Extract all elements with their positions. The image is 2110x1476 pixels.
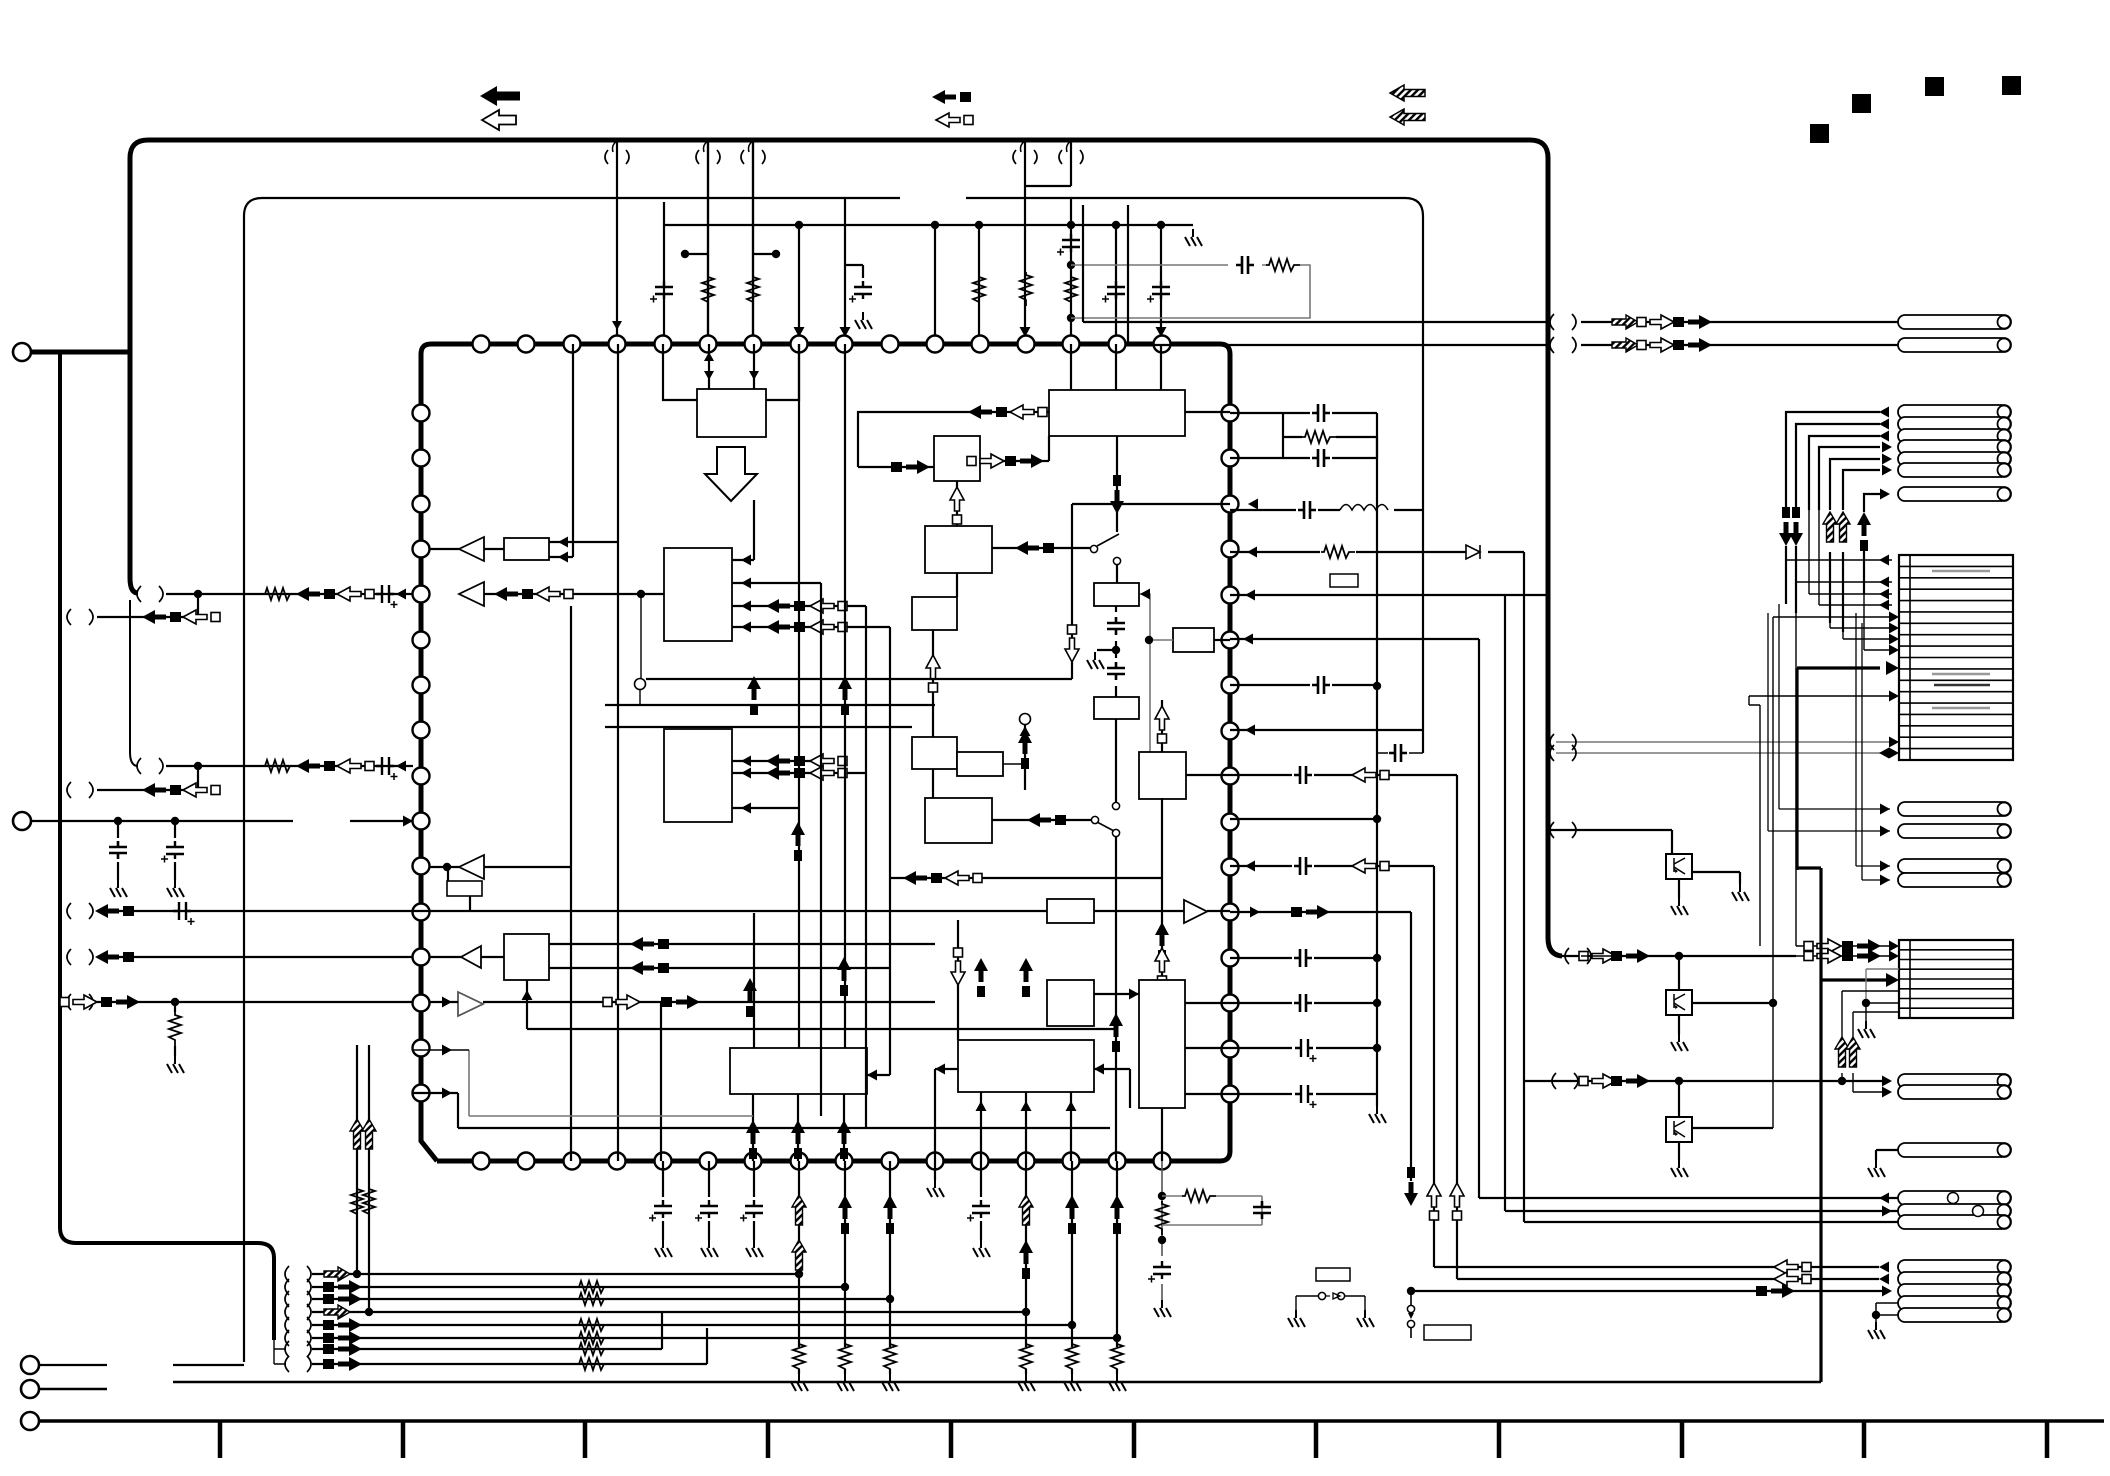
up arrow x754 mid <box>747 676 761 715</box>
wire to pill494 <box>1864 494 1880 512</box>
row1001 blockB <box>1866 1003 1899 1021</box>
thin frame leg to row766 <box>130 600 138 766</box>
wire blockA row628 <box>1830 627 1892 629</box>
label rect v1411 <box>1424 1325 1471 1340</box>
pill conn single494 <box>1898 487 2011 501</box>
corner marker square 1 <box>1810 124 1829 143</box>
arrowhead pin799 <box>794 327 805 337</box>
fan row 1338 <box>312 1337 1117 1339</box>
block sub11 <box>912 737 957 769</box>
IC left pin y866 <box>413 858 430 875</box>
row322 <box>1083 205 1898 322</box>
row821 <box>31 820 413 822</box>
row946 into blockB <box>1796 546 1892 946</box>
arrowhead blockA row594 <box>1879 589 1889 600</box>
wire top vertical x617 <box>616 140 618 344</box>
arrowhead pin766 <box>396 761 406 772</box>
wires into sub3 <box>1071 344 1230 412</box>
pill conn stack6 <box>1898 463 2011 477</box>
wire blockA row582 <box>1796 581 1892 583</box>
wire sub5 bottom <box>956 573 958 597</box>
res v1162 <box>1156 1201 1168 1235</box>
resistor R-loop <box>1266 259 1300 271</box>
row991 blockB <box>1842 991 1899 1037</box>
arrows on v1434 v1457 <box>1427 1183 1441 1220</box>
IC top pin x980 <box>972 336 989 353</box>
arrowheads sub1 <box>704 352 759 380</box>
wire blockA row605 <box>1819 604 1892 606</box>
ecap row1094 <box>1295 1085 1317 1108</box>
diode row552 <box>1466 545 1480 559</box>
wire x1161 <box>1160 225 1162 344</box>
wire blockA row594 <box>1809 593 1892 595</box>
arrow row766 b <box>337 759 374 773</box>
wire dotA <box>685 253 708 255</box>
fan arrow 1274 <box>324 1267 350 1281</box>
row594 left <box>166 593 413 595</box>
wire terminal to frame <box>31 350 130 355</box>
wire harness to pill3 <box>1809 436 1880 510</box>
interior vert x866 <box>865 606 867 1128</box>
arrows row968 <box>630 961 669 975</box>
resistor R-L2 <box>262 760 296 772</box>
fan vertical link <box>274 1340 286 1364</box>
IC left pin y640 <box>413 632 430 649</box>
ground x1377 <box>1369 1106 1386 1123</box>
IC bottom pin x663 <box>655 1153 672 1170</box>
IC top pin x708 <box>700 336 717 353</box>
arrowhead pill2 <box>1879 419 1889 430</box>
ecap row766 <box>376 757 398 780</box>
arrowhead blockA row617 <box>1889 612 1899 623</box>
arrowhead blockA row560 <box>1879 555 1889 566</box>
IC top pin x663 <box>655 336 672 353</box>
node 198-594 <box>194 590 202 598</box>
arrow row617 b <box>183 610 220 624</box>
blockA lower verticals <box>1749 436 1864 1128</box>
crossing row742 <box>1550 734 1576 750</box>
IC bottom pin x1117 <box>1109 1153 1126 1170</box>
wire blockA row560 <box>1786 559 1892 561</box>
arrow out of sub4 <box>980 436 1049 461</box>
fan arrow 1287 <box>323 1280 362 1294</box>
ground pill1303 <box>1868 1322 1885 1339</box>
IC left pin y957 <box>413 949 430 966</box>
block sub13 <box>957 752 1003 776</box>
fan arrow 1325 <box>323 1318 362 1332</box>
wire top vertical x753 <box>752 140 754 344</box>
ruler ticks <box>220 1421 2047 1458</box>
resistor row437 <box>1302 431 1336 443</box>
row552R <box>1230 552 1524 1081</box>
wire x979 <box>978 225 980 344</box>
wire blockmid to pin <box>1214 639 1230 641</box>
below pin 799 <box>798 1161 800 1374</box>
IC bottom pin x617 <box>609 1153 626 1170</box>
row790 <box>97 766 198 790</box>
arrows row956 <box>1804 949 1841 963</box>
arrow symbols sub4 out <box>967 454 1004 468</box>
connector crossing x1025 <box>1013 141 1037 164</box>
arrowhead chainA right <box>1140 589 1150 600</box>
cap drop x118 <box>117 821 119 880</box>
node circle 640 <box>635 679 646 690</box>
IC left pin y685 <box>413 677 430 694</box>
vert x1377 collect <box>1376 458 1378 1106</box>
row437R <box>1283 437 1377 458</box>
triangle buffer out <box>1184 900 1207 923</box>
switch row into sub5 <box>992 547 1090 549</box>
pill circles details <box>1948 1193 1959 1204</box>
node1002 <box>171 998 179 1006</box>
row819R <box>1230 818 1377 820</box>
connector block B outline <box>1899 940 2013 1018</box>
IC left pin y549 <box>413 541 430 558</box>
arrow row1002 b <box>101 995 140 1009</box>
wire Q3 <box>1678 1081 1680 1117</box>
bottom fan crossings2 <box>285 1341 311 1357</box>
legend hatched left arrow B <box>1390 109 1425 125</box>
arrowhead into pin 617 <box>612 321 622 330</box>
pill conn 1211 <box>1898 1204 2011 1218</box>
pill conn row345 <box>1898 338 2011 352</box>
legend open left arrow <box>482 110 516 130</box>
hollow up arrow sub4-sub5 <box>956 481 958 526</box>
node x1377 y1048 <box>1373 1044 1381 1052</box>
connector block A gray labels <box>1932 570 1990 572</box>
wire x845 jog <box>845 198 863 344</box>
hollow down arrow x958 <box>957 920 959 1040</box>
arrows row322 <box>1612 315 1638 329</box>
terminal circle b2 <box>21 1380 39 1398</box>
thick row into blockA <box>1797 668 1880 870</box>
wire harness to pill1 <box>1786 412 1880 510</box>
interior vert x821 <box>820 583 822 1116</box>
black up arrow x1026 <box>1019 958 1033 997</box>
wire blockA row639 <box>1843 638 1892 640</box>
triangle amp4 <box>461 946 481 968</box>
resistor R-strip2 <box>747 274 759 308</box>
ground at rail end <box>1185 229 1202 246</box>
node 198-766 <box>194 762 202 770</box>
pill conn stack3 <box>1898 429 2011 443</box>
node x1377 y1003 <box>1373 999 1381 1007</box>
wire pill1150 gnd <box>1876 1150 1898 1160</box>
crossing row1002 <box>67 994 93 1010</box>
rows into sub8 <box>549 944 935 968</box>
IC right pin y1094 <box>1222 1086 1239 1103</box>
IC bottom pin x753 <box>745 1153 762 1170</box>
below pin 754 <box>753 1161 755 1240</box>
wire sub16 pin775 <box>1186 774 1230 776</box>
wire x664 cap branch <box>663 202 665 344</box>
fan row resistors <box>576 1281 610 1293</box>
res rc loop <box>1182 1190 1216 1202</box>
wire Q2 <box>1678 956 1680 990</box>
IC bottom pin x526 <box>518 1153 535 1170</box>
pill conn stack1 <box>1898 405 2011 419</box>
below pin 663 <box>662 1161 664 1240</box>
big hollow down arrow <box>705 447 757 501</box>
block sub8 square <box>504 934 549 980</box>
node 1162b <box>1158 1236 1166 1244</box>
wire switch2 down <box>1115 837 1117 1161</box>
IC bottom pin x935 <box>927 1153 944 1170</box>
transistor Q3 <box>1666 1117 1692 1142</box>
arrow symbols into sub4 <box>891 460 930 474</box>
block sub10 <box>912 597 957 630</box>
corner marker square 2 <box>1852 94 1871 113</box>
wires to pills 809-880 <box>1768 604 1890 880</box>
pill conn 809 <box>1898 802 2011 816</box>
wire top vertical x1025 <box>1025 140 1071 344</box>
IC right pin y822 <box>1222 814 1239 831</box>
wire b2 <box>39 1382 1821 1389</box>
electrolytic capacitor C-strip1 <box>650 281 673 303</box>
tall block sub17 <box>1139 980 1185 1108</box>
black+hollow up arrows v1162 <box>1155 922 1169 961</box>
wires into sub6 <box>549 344 618 1161</box>
arrow row790 a <box>142 783 181 797</box>
electrolytic capacitor C-strip3 <box>1102 281 1125 303</box>
triangle amp1 <box>459 537 484 561</box>
wire chain gnd <box>1097 649 1116 651</box>
arrows row1002 <box>603 995 640 1009</box>
inputs sub19 bottom <box>981 1092 1071 1161</box>
row595R <box>1230 594 1548 596</box>
IC right pin y731 <box>1222 723 1239 740</box>
interior vert x571 <box>570 606 572 1161</box>
block sub19 <box>958 1040 1094 1092</box>
IC top pin x890 <box>882 336 899 353</box>
rail junction x979 <box>975 221 983 229</box>
IC right pin y1003 <box>1222 995 1239 1012</box>
cap row775x <box>1294 766 1312 784</box>
IC bottom pin x799 <box>791 1153 808 1170</box>
crossing row790 <box>67 782 93 798</box>
arrows sub18 bottom <box>746 1120 760 1159</box>
wire amp4 <box>430 956 504 958</box>
wire node640 <box>640 594 641 705</box>
arrowheads pills 1267-1291 <box>1879 1262 1892 1297</box>
harness below arrows <box>1786 540 1864 632</box>
IC bottom pin x708 <box>700 1153 717 1170</box>
arrowhead row552 <box>1247 547 1257 558</box>
black up arrows interior <box>743 978 757 1017</box>
pill conn 1291 <box>1898 1284 2011 1298</box>
wire x799 <box>798 225 800 344</box>
hollow up arrow sub10-sub11 <box>932 630 934 737</box>
transistor Q2 <box>1666 990 1692 1015</box>
arrows row946 <box>1804 939 1841 953</box>
crossing row594 <box>137 586 163 602</box>
row730R <box>1230 729 1423 731</box>
triangle amp2 <box>459 582 484 606</box>
IC left pin y594 <box>413 586 430 603</box>
IC bottom pin x844 <box>836 1153 853 1170</box>
triangle amp3 <box>459 855 484 879</box>
below pin 1117 <box>1116 1161 1118 1374</box>
gnd row1003 <box>1858 1021 1875 1038</box>
node867 <box>443 863 451 871</box>
switch bm <box>1296 1296 1365 1310</box>
wire harness to pill4 <box>1819 447 1880 510</box>
black down arrow under sub3 <box>1116 436 1118 532</box>
IC left pin y912 <box>413 904 430 921</box>
IC left pin y413 <box>413 405 430 422</box>
res drop x175 <box>174 1002 176 1056</box>
pill conn 1279 <box>1898 1272 2011 1286</box>
pill conn stack2 <box>1898 417 2011 431</box>
arrowhead pill1081 <box>1882 1076 1892 1087</box>
black up arrow x981 <box>974 958 988 997</box>
arrowheads sub1L <box>741 555 751 633</box>
corner marker square 4 <box>2002 76 2021 95</box>
wire x753 <box>752 140 754 344</box>
capacitor C-loop <box>1236 256 1254 274</box>
below pin 890 <box>889 1161 891 1374</box>
arrowhead pill6 <box>1882 465 1892 476</box>
cap row510 <box>1298 501 1316 519</box>
crossing row911 <box>67 903 93 919</box>
pill conn 1081 <box>1898 1074 2011 1088</box>
block sub2L <box>664 729 732 822</box>
node row1081 <box>1675 1077 1683 1085</box>
terminal circle b1 <box>21 1356 39 1374</box>
arrowhead row911R <box>1250 907 1260 918</box>
pill conn 1150 <box>1898 1143 2011 1157</box>
block sub1L <box>664 548 732 641</box>
wire amp3 <box>430 867 571 881</box>
inductor row510 <box>1340 505 1388 511</box>
row775R cap <box>1230 774 1457 776</box>
wire Q2 gnd <box>1678 1015 1680 1034</box>
sub17 rows to pins <box>1162 1003 1230 1161</box>
arrowhead blockA row628 <box>1889 623 1899 634</box>
fan arrow 1299 <box>323 1292 362 1306</box>
below pin 1072 <box>1071 1161 1073 1374</box>
arrowheads sub19 bottom <box>976 1101 1077 1111</box>
input sub18 right <box>867 1074 890 1076</box>
gray loop wire <box>1071 265 1310 318</box>
block sub3 top right <box>1049 390 1185 436</box>
node chain <box>1112 646 1120 654</box>
fan row 1349 <box>312 1313 662 1349</box>
arrowheads sub6 <box>558 537 568 563</box>
crossing row957 <box>67 949 93 965</box>
wire amp5 <box>430 1001 935 1003</box>
arrow into sub12 <box>1027 813 1066 827</box>
below pin 981 <box>980 1161 982 1240</box>
block chainA <box>1094 583 1139 606</box>
connector crossing on x708 <box>696 141 720 164</box>
legend hatched left arrow A <box>1390 85 1425 101</box>
switch1 blade <box>1097 534 1119 546</box>
wires into sub1 <box>663 344 799 400</box>
wire v1162 arrows <box>1161 798 1163 980</box>
node dot D <box>1067 314 1075 322</box>
arrows row606 <box>766 599 805 613</box>
IC right pin y640 <box>1222 632 1239 649</box>
arrows row627 <box>766 620 805 634</box>
rail junction x935 <box>931 221 939 229</box>
node row685 <box>1373 682 1381 690</box>
ground chain <box>1087 652 1104 669</box>
arrowheads pills 809-880 <box>1880 804 1890 886</box>
gray link chain-blockmid <box>1140 594 1173 752</box>
row510R <box>1230 509 1423 511</box>
inputs sub18 bottom <box>753 1094 844 1161</box>
ecap x1071 top <box>1057 234 1080 256</box>
IC bottom pin x572 <box>564 1153 581 1170</box>
gnd bracket pill1303 <box>1876 1303 1898 1322</box>
arrows on row594 inside <box>494 587 533 601</box>
pill conn 1267 <box>1898 1260 2011 1274</box>
arrowhead pill1092 <box>1882 1087 1892 1098</box>
row1012 blockB <box>1853 1012 1899 1037</box>
block sub6 <box>504 538 549 560</box>
node594 <box>637 590 645 598</box>
block sub7 under amp3 <box>447 881 482 896</box>
bottom fan crossings <box>285 1266 311 1282</box>
terminal circle b3 <box>21 1412 39 1430</box>
arrows row773 <box>766 766 805 780</box>
arrowhead pill1 <box>1879 407 1889 418</box>
below pin 709 <box>708 1161 710 1240</box>
fan arrow 1312 <box>324 1305 350 1319</box>
below pin 935 <box>934 1161 936 1180</box>
thick branch down from bus <box>31 352 274 1340</box>
wire blockA row650 <box>1864 649 1892 651</box>
wire harness to pill2 <box>1796 424 1880 510</box>
wire sub7 <box>469 896 471 911</box>
node dot A <box>681 250 689 258</box>
node row1003 <box>1862 999 1870 1007</box>
row1048R <box>1230 1047 1377 1049</box>
fan arrow 1338 <box>323 1331 362 1345</box>
block chainB <box>1094 697 1139 719</box>
arrowhead blockA row696 <box>1889 691 1899 702</box>
triangle amp5 gray <box>458 992 483 1016</box>
arrows row956o <box>1579 949 1616 963</box>
row639R small label <box>1330 574 1358 587</box>
IC right pin y912 <box>1222 904 1239 921</box>
IC right pin y867 <box>1222 859 1239 876</box>
row413R <box>1230 413 1377 458</box>
wire blockA row617 <box>1773 616 1892 618</box>
crossing row322 <box>1550 314 1576 330</box>
rail junction x799 <box>795 221 803 229</box>
switch2 circle a <box>1112 802 1119 809</box>
row pin504 <box>1072 503 1230 505</box>
arrows row761 <box>766 754 805 768</box>
rows into sub2L <box>732 761 866 808</box>
arrows row1081 <box>1579 1074 1616 1088</box>
connector block A rows <box>1899 566 2013 748</box>
wire x1116 <box>1115 225 1117 344</box>
wire sub15-sub17 <box>1094 993 1139 995</box>
hatched arrows under blockB <box>1835 1037 1849 1067</box>
row685R <box>1230 684 1377 686</box>
cap row685 <box>1312 676 1330 694</box>
arrowheads row742 753 <box>1879 737 1899 759</box>
pill conn 831 <box>1898 824 2011 838</box>
switch2 blade <box>1097 822 1114 831</box>
outer frame left leg lower <box>130 352 138 593</box>
arrowhead pin821 <box>403 816 413 827</box>
input sub19 right <box>1094 1069 1130 1108</box>
IC top pin x1071 <box>1063 336 1080 353</box>
